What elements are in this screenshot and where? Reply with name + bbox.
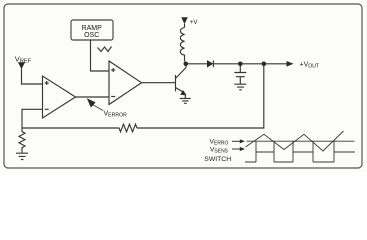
svg-text:VERRO: VERRO (210, 139, 229, 147)
svg-text:+VOUT: +VOUT (300, 62, 321, 70)
svg-text:VERROR: VERROR (104, 110, 128, 118)
svg-text:VSENS: VSENS (210, 146, 229, 154)
svg-text:+V: +V (190, 19, 199, 26)
svg-text:OSC: OSC (84, 32, 99, 39)
svg-text:SWITCH: SWITCH (204, 156, 231, 163)
